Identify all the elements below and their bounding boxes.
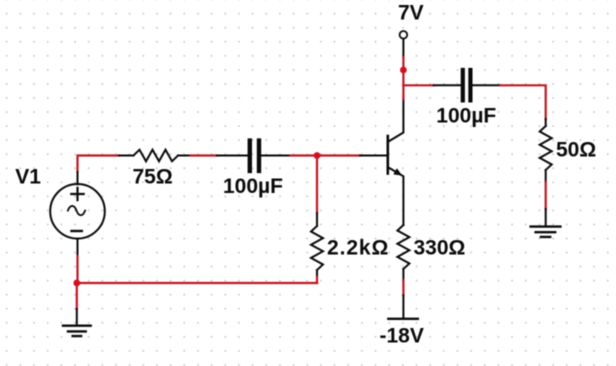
voltage source V1 circle xyxy=(50,184,105,239)
wire: 2.2k bottom to rail (red) xyxy=(316,277,318,283)
wire: node A to base lead (red) xyxy=(317,154,360,156)
svg-text:V1: V1 xyxy=(15,166,41,189)
wire: 50R to ground (red) xyxy=(545,182,547,209)
ground symbol right xyxy=(531,227,561,237)
V1 plus sign xyxy=(71,188,83,200)
V1 sine symbol xyxy=(68,206,85,215)
transistor Q1 emitter arrow xyxy=(393,168,402,175)
svg-text:-18V: -18V xyxy=(380,325,424,348)
wire: V1 top lead (black) xyxy=(77,172,79,184)
resistor R1 75ohm zigzag xyxy=(134,150,179,162)
terminal 7V circle xyxy=(400,31,408,39)
terminal -18V lead (black) xyxy=(402,295,404,318)
capacitor C1 leads xyxy=(217,155,291,157)
resistor R2 2.2k zigzag xyxy=(311,226,323,270)
resistor R1 75ohm leads xyxy=(119,155,191,157)
V1 bottom lead (black) xyxy=(77,239,79,256)
transistor Q1 emitter stroke xyxy=(389,168,404,226)
transistor Q1 collector stroke xyxy=(389,99,404,142)
junction node collector xyxy=(400,67,407,74)
resistor R4 330ohm bottom lead xyxy=(402,269,404,280)
capacitor C1 plates xyxy=(250,141,259,171)
wire: V1 top to 75R corner (red) xyxy=(78,156,120,173)
svg-text:50Ω: 50Ω xyxy=(556,138,596,161)
resistor R4 330ohm zigzag xyxy=(397,225,409,269)
ground lead right (black) xyxy=(545,209,547,226)
transistor Q1 base lead (black) xyxy=(360,155,387,157)
V1 minus sign xyxy=(72,230,82,232)
resistor R2 2.2k leads xyxy=(316,213,318,277)
wire: 330R to -18V (red) xyxy=(402,280,404,295)
wire: 7V to collector (red) xyxy=(402,57,404,99)
capacitor C2 leads xyxy=(434,84,500,86)
wire: C1 to node A (red) xyxy=(291,154,318,156)
terminal 7V lead (black) xyxy=(402,39,404,57)
terminal -18V bar xyxy=(388,318,418,320)
junction node bottom-left xyxy=(73,280,80,287)
resistor R3 50ohm leads xyxy=(545,119,547,182)
wire: junction down to ground (red) xyxy=(76,283,78,309)
wire: C2 to 50R corner (red) xyxy=(500,85,546,119)
svg-text:100µF: 100µF xyxy=(223,175,283,198)
svg-text:330Ω: 330Ω xyxy=(414,236,466,259)
svg-text:7V: 7V xyxy=(398,1,424,24)
transistor Q1 base bar xyxy=(386,136,389,174)
svg-text:75Ω: 75Ω xyxy=(133,165,173,188)
wire: bottom rail junction to 2.2k (red) xyxy=(77,282,317,284)
wire: collector branch to C2 (red) xyxy=(403,84,433,86)
capacitor C2 plates xyxy=(463,70,471,100)
junction node A xyxy=(314,152,321,159)
ground lead left (black) xyxy=(76,309,78,325)
wire: V1 bottom to junction (red) xyxy=(76,256,78,283)
wire: 75R to C1 (red) xyxy=(191,154,218,156)
resistor R3 50ohm zigzag xyxy=(540,126,552,170)
wire: node A down to 2.2k (red) xyxy=(316,156,318,214)
svg-text:2.2kΩ: 2.2kΩ xyxy=(327,236,389,259)
ground symbol left xyxy=(63,326,91,336)
svg-text:100µF: 100µF xyxy=(436,104,496,127)
